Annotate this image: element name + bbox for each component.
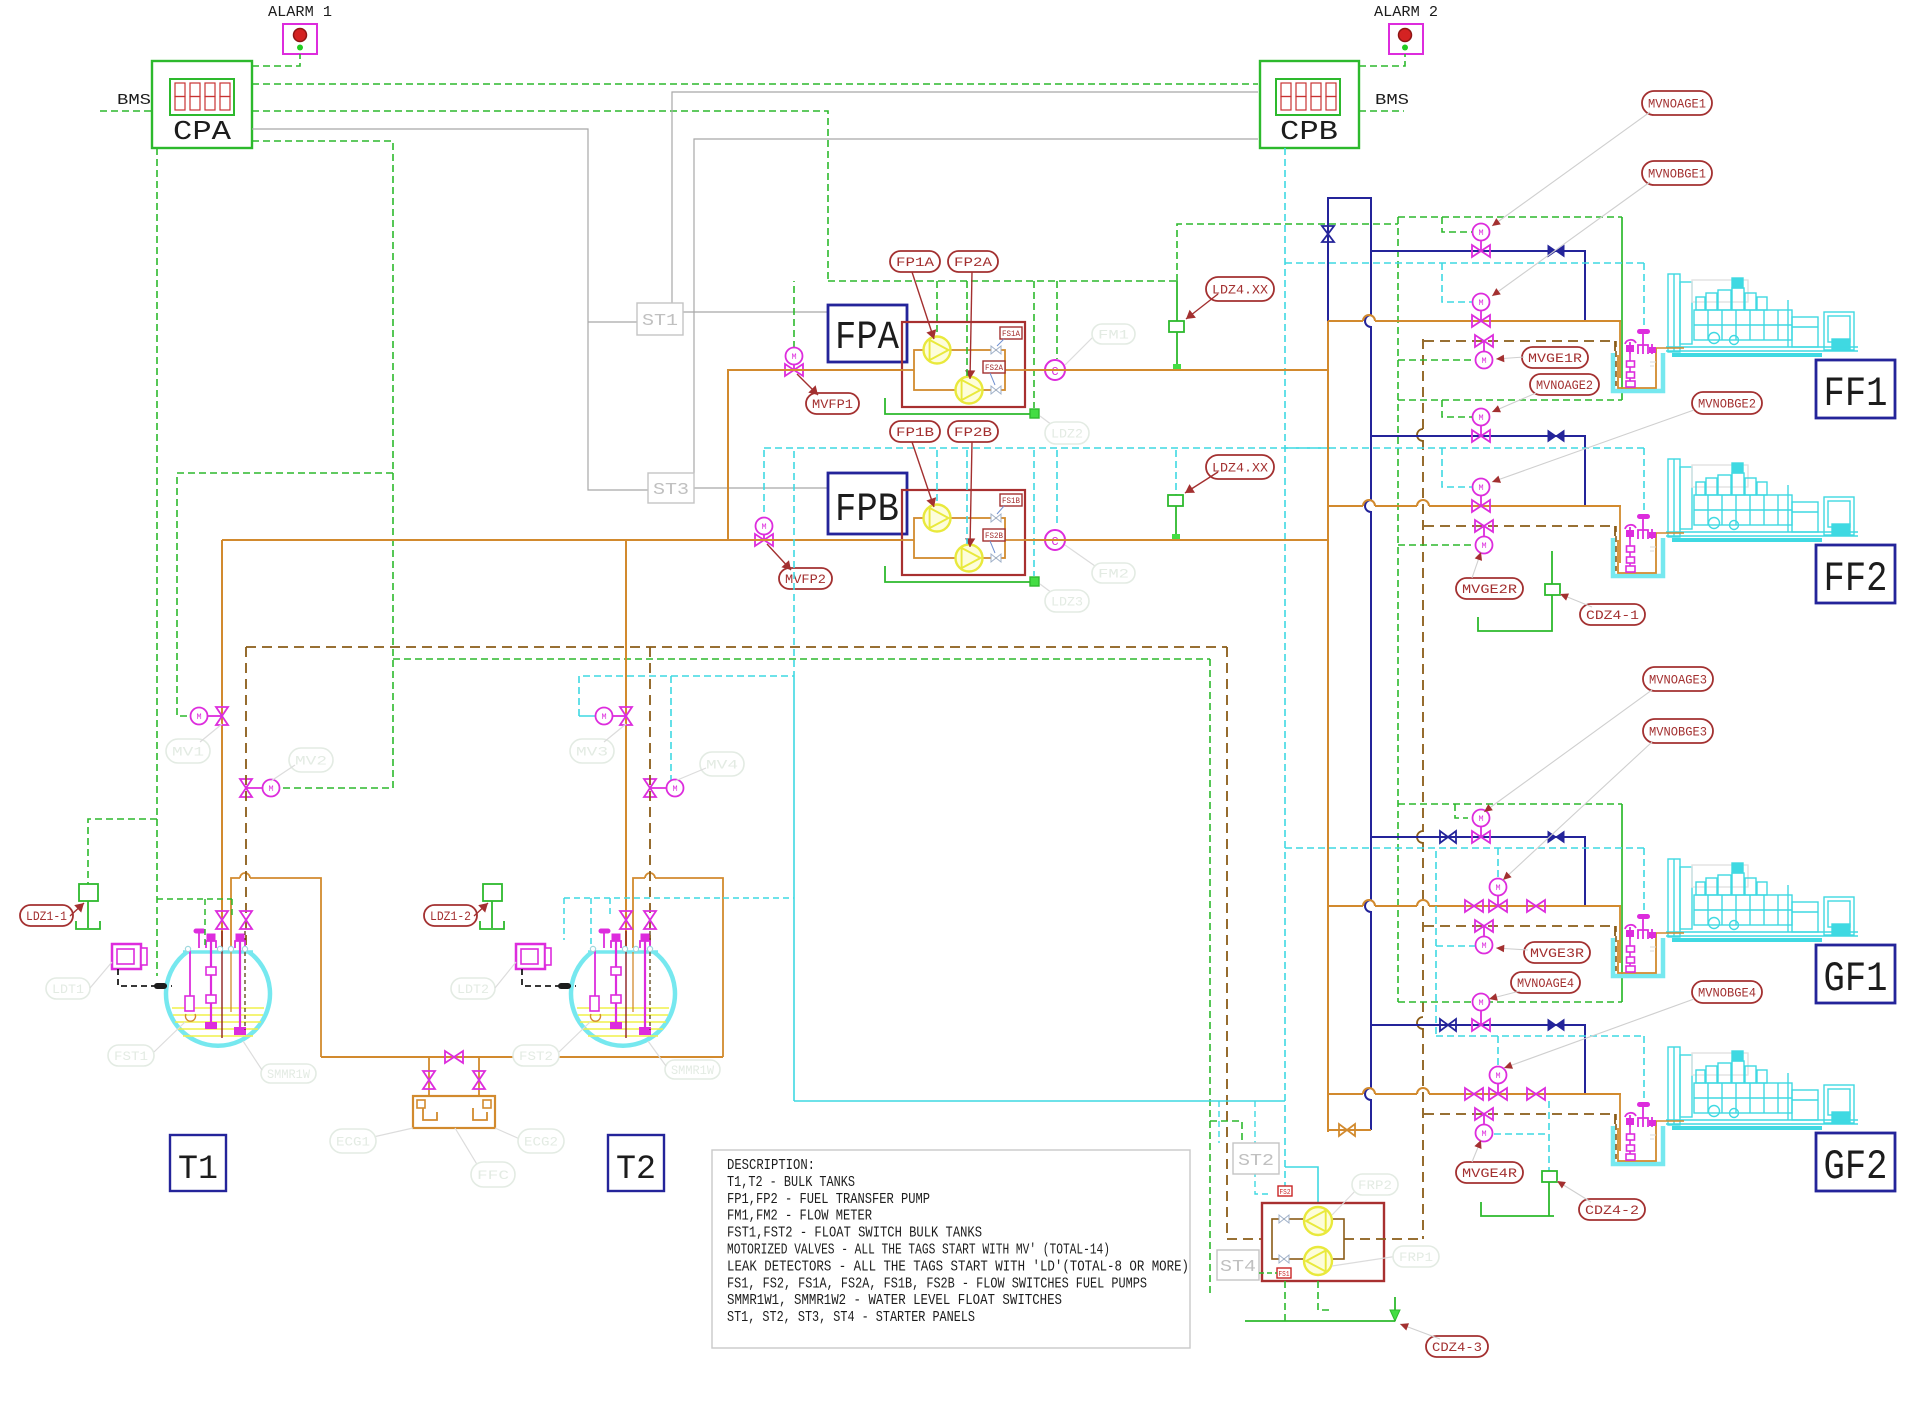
wire: FF1 cyan header bbox=[1285, 262, 1644, 264]
label FP2A bbox=[948, 251, 998, 272]
pipe: GF2 engine return (blue) bbox=[1371, 1025, 1585, 1094]
label MVNOBGE3 bbox=[1643, 719, 1713, 743]
wire: cyan drop to day tank GF1 bbox=[1643, 848, 1645, 918]
wire: green rail to next unit bbox=[1621, 804, 1623, 1002]
flow switch FS2B symbol bbox=[991, 554, 1001, 562]
svg-text:FP1B: FP1B bbox=[896, 425, 934, 440]
wire: FPA grey link bbox=[902, 321, 907, 323]
ghost label FRP1 bbox=[1332, 1256, 1398, 1266]
pipe: day tank to engine bbox=[1656, 1120, 1684, 1122]
valve: motorized MV1 bbox=[216, 707, 228, 725]
ghost label LDT2 bbox=[451, 978, 495, 999]
svg-text:FPA: FPA bbox=[835, 316, 899, 361]
wire: CPB to BMS bbox=[1359, 110, 1404, 112]
pipe: tank return main (brown dashed) bbox=[246, 646, 1227, 648]
svg-text:CPB: CPB bbox=[1280, 118, 1338, 148]
leak detector CDZ4-3 (green bracket) bbox=[1245, 1320, 1395, 1322]
ghost label LDZ3 bbox=[1040, 584, 1056, 596]
leak detector CDZ4-1 bbox=[1551, 551, 1553, 584]
svg-text:M: M bbox=[1495, 1071, 1500, 1081]
pipe: GF1 engine return (blue) bbox=[1371, 837, 1585, 906]
tank label T1 bbox=[170, 1135, 226, 1191]
svg-text:MVNOBGE4: MVNOBGE4 bbox=[1698, 986, 1756, 1001]
starter panel ST3 (ghost box) bbox=[648, 473, 694, 503]
wire: cyan riser GF1 to GF2 header bbox=[1435, 851, 1437, 1036]
wire: green control trunk bbox=[1397, 217, 1399, 1002]
svg-text:M: M bbox=[1481, 941, 1486, 951]
T1 top valves bbox=[216, 911, 228, 929]
generator engine GF1 bbox=[1666, 859, 1858, 942]
svg-text:ALARM 2: ALARM 2 bbox=[1374, 4, 1438, 21]
svg-text:MV2: MV2 bbox=[295, 754, 327, 769]
motorized valve MVFP2 bbox=[763, 449, 765, 512]
control panel CPB bbox=[1260, 61, 1359, 148]
leader FP2A to pump bbox=[970, 272, 972, 379]
fill cabinet FFC bbox=[413, 1096, 495, 1128]
svg-text:LDZ4.XX: LDZ4.XX bbox=[1212, 461, 1268, 476]
svg-text:MVGE4R: MVGE4R bbox=[1462, 1166, 1517, 1181]
description box bbox=[712, 1150, 1190, 1348]
svg-text:FM2: FM2 bbox=[1098, 567, 1129, 582]
wire: cyan feed to supply valve bbox=[1442, 448, 1472, 487]
check valve on GF1 return bbox=[1548, 832, 1564, 843]
svg-text:GF1: GF1 bbox=[1824, 955, 1888, 1003]
svg-text:M: M bbox=[1481, 541, 1486, 551]
label MVNOAGE1 bbox=[1642, 91, 1712, 115]
svg-text:FP2A: FP2A bbox=[954, 255, 992, 270]
leak detector LDZ1-2 bbox=[480, 884, 504, 929]
ghost label FST1 bbox=[108, 1045, 154, 1066]
svg-text:MV3: MV3 bbox=[576, 745, 608, 760]
svg-text:FF1: FF1 bbox=[1824, 370, 1888, 418]
svg-text:MV4: MV4 bbox=[706, 758, 738, 773]
tank label T2 bbox=[608, 1135, 664, 1191]
valve: GF1 return manual bbox=[1440, 831, 1456, 843]
wire: ST1 to FPA (grey) bbox=[683, 311, 828, 313]
FPB internal pipe loop bbox=[902, 539, 914, 541]
svg-text:M: M bbox=[1481, 356, 1486, 366]
pipe: T2 suction riser bbox=[625, 540, 627, 948]
bulk tank T2 bbox=[571, 952, 675, 1046]
wire: green feed to MVGE2R bbox=[1398, 544, 1475, 546]
valve: blue trunk isolation bbox=[1322, 226, 1334, 242]
node C (FPB discharge) bbox=[1045, 530, 1065, 550]
pipe: FF1 day tank return (brown) bbox=[1424, 340, 1615, 342]
valve: motorized MVNOBGE2 bbox=[1472, 500, 1490, 512]
ghost label MV2 bbox=[289, 748, 333, 772]
FS1B tag bbox=[1000, 494, 1022, 506]
cable: motor box T2 (black dashed) bbox=[522, 969, 576, 986]
ghost label ECG1 bbox=[360, 1128, 413, 1140]
ghost label LDT1 bbox=[46, 978, 90, 999]
svg-text:BMS: BMS bbox=[117, 93, 151, 109]
node C (FPA discharge) bbox=[1045, 360, 1065, 380]
starter panel ST4 (ghost box) bbox=[1217, 1250, 1259, 1280]
check valve on FF1 return bbox=[1548, 246, 1564, 257]
svg-text:ECG2: ECG2 bbox=[524, 1135, 558, 1150]
T2 top fittings bbox=[599, 929, 650, 948]
pump skid FPB (red enclosure) bbox=[902, 490, 1025, 575]
wire: cyan drops into FPB pumps bbox=[936, 450, 938, 504]
wire: CPA output to MV1/MV2 loop bbox=[252, 141, 393, 788]
pump FP1B bbox=[924, 505, 951, 532]
pipe: return pump discharge (brown) bbox=[1344, 1238, 1423, 1240]
day tank GF1 bbox=[1613, 906, 1663, 976]
valve: motorized MV2 (on T1 return) bbox=[240, 779, 252, 797]
label MVNOAGE2 bbox=[1530, 374, 1599, 395]
FS2B tag bbox=[983, 529, 1005, 541]
label MVNOAGE3 bbox=[1643, 667, 1713, 691]
svg-text:ST1: ST1 bbox=[642, 312, 678, 331]
pipe: fill cabinet drops bbox=[428, 1057, 430, 1096]
svg-text:ST3: ST3 bbox=[653, 481, 689, 500]
wire: cyan drops at ST2 bbox=[1218, 1101, 1220, 1143]
svg-text:MOTORIZED VALVES - ALL THE TAG: MOTORIZED VALVES - ALL THE TAGS START WI… bbox=[727, 1243, 1110, 1259]
svg-text:MVNOAGE3: MVNOAGE3 bbox=[1649, 673, 1707, 688]
motorized valve MVFP1 bbox=[793, 281, 795, 348]
wire: cyan to MV3/MV4 bbox=[579, 676, 794, 716]
svg-text:MVNOBGE1: MVNOBGE1 bbox=[1648, 167, 1706, 182]
svg-text:FST1,FST2 - FLOAT SWITCH BULK: FST1,FST2 - FLOAT SWITCH BULK TANKS bbox=[727, 1226, 982, 1242]
cable: motor box to tank (black dashed) bbox=[118, 969, 172, 986]
wire: CPB to ALARM 2 bbox=[1359, 54, 1405, 66]
T1 fuel level (yellow) bbox=[172, 1007, 264, 1009]
T2 internal probes (magenta) bbox=[594, 948, 596, 1002]
unit label FF2 bbox=[1816, 545, 1895, 603]
svg-text:M: M bbox=[1495, 883, 1500, 893]
pump circuit (brown dashed) bbox=[1272, 1219, 1344, 1259]
label LDZ1-2 bbox=[424, 905, 477, 926]
svg-text:ALARM 1: ALARM 1 bbox=[268, 4, 332, 21]
control panel CPA bbox=[152, 61, 252, 148]
wire: CPA to ALARM 1 bbox=[252, 54, 300, 66]
svg-text:ST1, ST2, ST3, ST4 - STARTER P: ST1, ST2, ST3, ST4 - STARTER PANELS bbox=[727, 1310, 975, 1326]
svg-text:SMMR1W: SMMR1W bbox=[267, 1067, 310, 1082]
valve: motorized MVGE4R bbox=[1475, 1108, 1493, 1120]
label MVNOBGE4 bbox=[1692, 981, 1762, 1003]
return pump unit (red enclosure) bbox=[1262, 1203, 1384, 1281]
valve: motorized MVNOAGE4 bbox=[1472, 1019, 1490, 1031]
valve: fill main isolation bbox=[445, 1051, 463, 1063]
pump skid FPA (red enclosure) bbox=[902, 322, 1025, 407]
flow switch symbols bbox=[1279, 1215, 1289, 1223]
pipe: FF2 fuel supply (orange) bbox=[1328, 505, 1363, 507]
wire: cyan feed to MVGE3R bbox=[1436, 945, 1475, 947]
ghost label FFC bbox=[455, 1128, 478, 1166]
T2 instrument wiring (cyan) bbox=[564, 897, 723, 899]
svg-text:LDZ1-2: LDZ1-2 bbox=[430, 909, 471, 924]
svg-text:MVFP1: MVFP1 bbox=[812, 397, 853, 412]
flow switch FS1 tag bbox=[1277, 1268, 1291, 1278]
svg-text:BMS: BMS bbox=[1375, 93, 1409, 109]
label MVNOBGE2 bbox=[1692, 392, 1762, 414]
motor box T1 (magenta) bbox=[112, 944, 141, 969]
wire: branch to MV1 bbox=[177, 473, 393, 716]
valve: motorized MVNOBGE1 bbox=[1472, 315, 1490, 327]
ghost label FM1 bbox=[1065, 335, 1095, 365]
leak detector CDZ4-2 bbox=[1494, 1133, 1549, 1135]
T2 internal dip tubes bbox=[625, 931, 627, 1038]
svg-text:CDZ4-2: CDZ4-2 bbox=[1585, 1203, 1639, 1218]
valve: GF1 supply manual 1 bbox=[1465, 900, 1483, 912]
pipe: return down to pump unit bbox=[1227, 647, 1262, 1239]
valve: motorized MVNOAGE3 bbox=[1472, 831, 1490, 843]
svg-text:M: M bbox=[601, 712, 606, 722]
valve: motorized MVNOBGE3 bbox=[1489, 900, 1507, 912]
valve: bypass (orange) bbox=[1339, 1124, 1355, 1136]
svg-text:MVNOAGE1: MVNOAGE1 bbox=[1648, 97, 1706, 112]
pipe: FPA suction (orange) bbox=[728, 370, 902, 540]
svg-text:FS2: FS2 bbox=[1280, 1189, 1291, 1197]
svg-text:CPA: CPA bbox=[173, 118, 232, 148]
pipe: FF2 engine return (blue) bbox=[1371, 436, 1585, 506]
wire: green header to right trunk bbox=[1177, 224, 1398, 281]
svg-text:T2: T2 bbox=[616, 1151, 656, 1189]
svg-text:LDZ1-1: LDZ1-1 bbox=[26, 909, 67, 924]
svg-text:FS1A: FS1A bbox=[1002, 330, 1020, 339]
starter panel ST2 (ghost box) bbox=[1233, 1143, 1279, 1174]
wire: ST3 to FPB (grey) bbox=[694, 487, 828, 489]
wire: CPA output down-left (green dashed) bbox=[156, 148, 158, 976]
pipe: orange trunk to blue bypass bbox=[1328, 1129, 1371, 1131]
day tank FF2 bbox=[1613, 506, 1663, 576]
T1 instrument wiring (green) bbox=[157, 898, 232, 900]
leak detector LDZ1-1 bbox=[76, 884, 100, 929]
svg-text:LEAK DETECTORS - ALL THE TAGS: LEAK DETECTORS - ALL THE TAGS START WITH… bbox=[727, 1259, 1189, 1275]
unit label GF1 bbox=[1816, 945, 1895, 1003]
svg-text:CDZ4-3: CDZ4-3 bbox=[1432, 1340, 1482, 1355]
wire: FF2 green header bbox=[1398, 399, 1622, 401]
ghost label LDZ2 bbox=[1040, 416, 1056, 428]
svg-text:MVGE1R: MVGE1R bbox=[1528, 351, 1582, 366]
svg-text:LDT2: LDT2 bbox=[457, 982, 489, 997]
wire: cyan feed to supply valve bbox=[1442, 263, 1472, 302]
svg-text:MVNOAGE2: MVNOAGE2 bbox=[1536, 378, 1593, 393]
svg-text:SMMR1W: SMMR1W bbox=[671, 1063, 714, 1078]
leak detector under FPA bbox=[885, 398, 1035, 414]
bulk tank T1 bbox=[166, 952, 270, 1046]
wire: CPA to CPB (top green bus) bbox=[252, 83, 1258, 85]
pipe: day tank to engine bbox=[1656, 532, 1684, 534]
wire: FF2 cyan header bbox=[1285, 447, 1644, 449]
svg-text:FS1B: FS1B bbox=[1002, 497, 1020, 506]
svg-text:M: M bbox=[672, 784, 677, 794]
pipe: day tank to engine bbox=[1656, 932, 1684, 934]
svg-text:LDZ2: LDZ2 bbox=[1051, 427, 1083, 442]
flow switch FS1B symbol bbox=[991, 514, 1001, 522]
valve: GF2 supply manual 2 bbox=[1527, 1088, 1545, 1100]
label MVGE3R bbox=[1524, 942, 1590, 963]
svg-text:LDZ3: LDZ3 bbox=[1051, 595, 1083, 610]
valve: cabinet drop 1 bbox=[423, 1071, 435, 1089]
valve: motorized MVNOAGE1 bbox=[1472, 245, 1490, 257]
wire: green jog to ST2 bbox=[1210, 1121, 1242, 1143]
pipe: tank interconnect / fill main bbox=[321, 1056, 723, 1058]
label FP2B bbox=[948, 421, 998, 442]
svg-text:T1,T2 - BULK TANKS: T1,T2 - BULK TANKS bbox=[727, 1175, 855, 1191]
svg-text:FF2: FF2 bbox=[1824, 555, 1888, 603]
wire: GF1 green header bbox=[1398, 803, 1622, 805]
svg-text:FP1,FP2 - FUEL TRANSFER PUMP: FP1,FP2 - FUEL TRANSFER PUMP bbox=[727, 1192, 930, 1208]
wire: GF1 cyan header bbox=[1285, 847, 1644, 849]
label MVNOAGE4 bbox=[1511, 972, 1580, 993]
wire: cyan drop to day tank FF2 bbox=[1643, 448, 1645, 518]
label LDZ4.XX (FPA) bbox=[1206, 277, 1274, 301]
ghost label SMMR1W2 bbox=[665, 1060, 720, 1079]
T1 top ports bbox=[185, 946, 190, 951]
label MVGE1R bbox=[1522, 347, 1588, 368]
svg-text:M: M bbox=[1478, 998, 1483, 1008]
FS2A tag bbox=[983, 361, 1005, 373]
leader FP1B to pump bbox=[912, 442, 934, 507]
pump FP2B bbox=[956, 545, 983, 572]
svg-text:FPB: FPB bbox=[835, 488, 899, 533]
wire: green under pump unit bbox=[1284, 1281, 1286, 1321]
valve: motorized MVNOAGE2 bbox=[1472, 430, 1490, 442]
svg-text:T1: T1 bbox=[178, 1151, 218, 1189]
T1 internal probes (magenta) bbox=[189, 948, 191, 1002]
svg-text:M: M bbox=[791, 352, 796, 362]
pipe: cyan riser T2 controls bbox=[793, 451, 795, 676]
svg-text:FM1,FM2 - FLOW METER: FM1,FM2 - FLOW METER bbox=[727, 1209, 872, 1225]
valve: GF1 supply manual 2 bbox=[1527, 900, 1545, 912]
wire: FPA green header bbox=[828, 280, 1177, 282]
svg-text:M: M bbox=[761, 522, 766, 532]
pipe: GF2 day tank return (brown) bbox=[1424, 1113, 1615, 1115]
wire: cyan feed to supply valve bbox=[1497, 848, 1499, 878]
ghost label MV4 bbox=[700, 752, 744, 776]
svg-text:FRP1: FRP1 bbox=[1399, 1250, 1433, 1265]
wire: cyan drop to day tank FF1 bbox=[1643, 263, 1645, 333]
flow switch FS2 tag bbox=[1278, 1186, 1292, 1196]
pipe: FF1 engine return (blue) bbox=[1371, 251, 1585, 321]
svg-text:ECG1: ECG1 bbox=[336, 1135, 370, 1150]
pipe: blue trunk down bbox=[1370, 326, 1372, 501]
label CDZ4-1 bbox=[1580, 604, 1645, 625]
pump FRP1 bbox=[1304, 1247, 1332, 1275]
svg-text:MVNOAGE4: MVNOAGE4 bbox=[1517, 976, 1574, 991]
pump FP1A bbox=[924, 337, 951, 364]
wire: CPB cyan trunk down bbox=[1284, 148, 1286, 1196]
valve: GF2 return manual bbox=[1440, 1019, 1456, 1031]
svg-text:GF2: GF2 bbox=[1824, 1143, 1888, 1191]
pipe: FPB discharge to trunk bbox=[1025, 539, 1327, 541]
pipe: FPA discharge to trunk bbox=[1025, 369, 1327, 371]
FS1A tag bbox=[1000, 327, 1022, 339]
pipe: T1 fill line bbox=[231, 878, 240, 948]
T2 top ports bbox=[590, 946, 595, 951]
wire: GF2 green header bbox=[1398, 1001, 1622, 1003]
pipe: T1 return riser bbox=[245, 647, 247, 948]
svg-text:C: C bbox=[1051, 535, 1058, 549]
wire: CPA to ST1/ST3 (grey) bbox=[252, 129, 648, 490]
svg-text:MVFP2: MVFP2 bbox=[785, 572, 826, 587]
svg-text:M: M bbox=[196, 712, 201, 722]
leak detector LDZ4.XX (FPB) bbox=[1175, 450, 1177, 495]
svg-text:FRP2: FRP2 bbox=[1358, 1178, 1392, 1193]
flow switch FS1A symbol bbox=[991, 346, 1001, 354]
valve: motorized MVGE1R bbox=[1475, 335, 1493, 347]
label LDZ1-1 bbox=[20, 905, 73, 926]
wire: green branch to ST2 area bbox=[393, 658, 1210, 660]
leader FP1A to pump bbox=[912, 272, 934, 339]
ghost label MV3 bbox=[570, 739, 614, 763]
wire: FF1 green header bbox=[1398, 216, 1622, 218]
wire: GF2 cyan header bbox=[1436, 1035, 1644, 1037]
T1 top fittings bbox=[194, 929, 245, 948]
label MVGE4R bbox=[1456, 1162, 1523, 1183]
svg-text:MVGE3R: MVGE3R bbox=[1530, 946, 1584, 961]
day tank GF2 bbox=[1613, 1094, 1663, 1164]
pipe: T2 return riser bbox=[649, 647, 651, 948]
starter panel ST1 (ghost box) bbox=[637, 303, 683, 335]
wire: cyan drop to day tank GF2 bbox=[1643, 1036, 1645, 1106]
ghost label ECG2 bbox=[495, 1128, 522, 1140]
svg-text:FFC: FFC bbox=[477, 1168, 509, 1183]
wire: BMS to CPA bbox=[100, 110, 152, 112]
svg-text:M: M bbox=[1481, 1129, 1486, 1139]
svg-text:LDT1: LDT1 bbox=[52, 982, 84, 997]
svg-text:ST2: ST2 bbox=[1238, 1152, 1274, 1171]
ghost label FM2 bbox=[1065, 545, 1095, 566]
svg-text:ST4: ST4 bbox=[1220, 1258, 1256, 1277]
motor box T2 (magenta) bbox=[516, 944, 545, 969]
wire: LDZ1-1 branch bbox=[88, 819, 157, 884]
wire: ST1 to CPB (grey) bbox=[672, 92, 1258, 303]
label CDZ4-3 bbox=[1426, 1336, 1488, 1357]
pipe: orange trunk riser bbox=[1327, 321, 1329, 1132]
wire: ST4 to FS1 bbox=[1259, 1272, 1277, 1274]
FPB cyan header bbox=[764, 447, 1330, 449]
svg-text:FS2A: FS2A bbox=[985, 364, 1003, 373]
svg-text:FS1, FS2, FS1A, FS2A, FS1B, FS: FS1, FS2, FS1A, FS2A, FS1B, FS2B - FLOW … bbox=[727, 1276, 1147, 1292]
pipe: cyan collector from T2 bbox=[794, 1100, 1285, 1102]
check valve on FF2 return bbox=[1548, 431, 1564, 442]
label MVFP1 bbox=[806, 393, 859, 414]
valve: cabinet drop 2 bbox=[473, 1071, 485, 1089]
valve: motorized MVGE2R bbox=[1475, 520, 1493, 532]
generator engine FF1 bbox=[1666, 274, 1858, 357]
generator engine FF2 bbox=[1666, 459, 1858, 542]
label CDZ4-2 bbox=[1579, 1199, 1645, 1220]
svg-text:FST1: FST1 bbox=[114, 1049, 148, 1064]
label FP1B bbox=[890, 421, 940, 442]
svg-text:MVGE2R: MVGE2R bbox=[1462, 582, 1517, 597]
ghost label FST2 bbox=[513, 1045, 559, 1066]
pipe: suction main from tanks bbox=[222, 539, 902, 541]
label LDZ4.XX (FPB) bbox=[1206, 455, 1274, 479]
svg-text:M: M bbox=[268, 784, 273, 794]
svg-text:M: M bbox=[1478, 814, 1483, 824]
svg-text:CDZ4-1: CDZ4-1 bbox=[1586, 608, 1639, 623]
wire: green drops into FPA pumps bbox=[936, 281, 938, 336]
day tank FF1 bbox=[1613, 321, 1663, 391]
wire: cyan feed to supply valve bbox=[1497, 1036, 1499, 1066]
valve: motorized MVGE3R bbox=[1475, 920, 1493, 932]
pipe: GF1 day tank return (brown) bbox=[1424, 925, 1615, 927]
pump FRP2 bbox=[1304, 1207, 1332, 1235]
svg-text:MV1: MV1 bbox=[172, 745, 204, 760]
T2 fuel level (yellow) bbox=[577, 1007, 669, 1009]
wire: CPA BMS bus to FPA drop bbox=[252, 111, 828, 281]
svg-text:FST2: FST2 bbox=[519, 1049, 553, 1064]
svg-text:MVNOBGE2: MVNOBGE2 bbox=[1698, 397, 1756, 412]
pipe: day tank to engine bbox=[1656, 347, 1684, 349]
leak detector under FPB bbox=[885, 566, 1035, 582]
svg-text:M: M bbox=[1478, 298, 1483, 308]
pipe: brown return trunk bbox=[1422, 339, 1424, 430]
pump set label FPA bbox=[828, 305, 907, 362]
